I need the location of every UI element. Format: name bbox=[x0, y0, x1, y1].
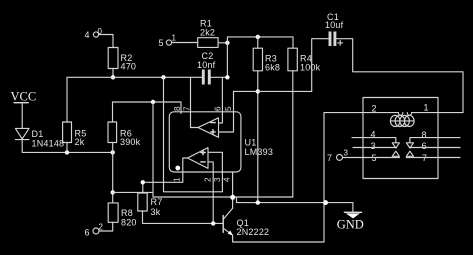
wire x153 riser to rail A bbox=[153, 102, 293, 197]
power VCC bbox=[11, 89, 37, 128]
capacitor C2 bbox=[197, 51, 216, 85]
svg-text:1N4148: 1N4148 bbox=[32, 139, 65, 149]
pin numbers bottom bbox=[173, 177, 232, 182]
diode D1 bbox=[15, 128, 64, 148]
op-amp A triangle (top) bbox=[198, 118, 219, 138]
junction R3 top bbox=[256, 35, 260, 39]
wire D1 to R5/R6 bottom bbox=[22, 140, 113, 153]
svg-text:6: 6 bbox=[214, 106, 223, 111]
resistor R7 bbox=[138, 193, 163, 217]
junction R2/bus bbox=[111, 75, 115, 79]
wire R1 right to junction bbox=[218, 42, 227, 44]
svg-text:3: 3 bbox=[371, 141, 376, 151]
svg-text:LM393: LM393 bbox=[245, 147, 274, 157]
svg-text:2k2: 2k2 bbox=[200, 28, 215, 38]
wire pad5 to R1 bbox=[172, 42, 198, 44]
node pad 5 bbox=[159, 34, 177, 49]
svg-text:3k: 3k bbox=[151, 207, 161, 217]
svg-text:4: 4 bbox=[85, 30, 90, 40]
svg-text:R7: R7 bbox=[151, 197, 163, 207]
svg-text:6k8: 6k8 bbox=[265, 63, 280, 73]
junction rail B / R3 riser bbox=[256, 200, 260, 204]
resistor R1 bbox=[198, 19, 218, 48]
junction pin4/rail A bbox=[230, 195, 235, 200]
svg-text:5: 5 bbox=[159, 38, 164, 48]
junction R7 top bbox=[141, 180, 145, 184]
junction R3 bottom bbox=[256, 89, 260, 93]
wire C1 right lead to relay coil pin 1 bbox=[336, 39, 463, 113]
wire pin 3 inside: non-inverting input B bbox=[208, 152, 222, 172]
wire R6 bottom down to R8 bbox=[112, 143, 114, 203]
relay coil bbox=[390, 113, 414, 127]
svg-text:3: 3 bbox=[344, 149, 349, 158]
svg-text:2: 2 bbox=[372, 104, 377, 114]
junction R5 bottom bbox=[65, 150, 69, 154]
wire R3 top bbox=[257, 37, 259, 48]
wire pin5 net: junction left to pin5, right to C1 left lead bbox=[234, 90, 312, 92]
svg-text:D1: D1 bbox=[32, 129, 44, 139]
resistor R5 bbox=[63, 122, 87, 147]
svg-text:U1: U1 bbox=[245, 138, 257, 148]
svg-text:2k: 2k bbox=[75, 137, 85, 147]
wire pad6 to R8 bottom bbox=[99, 222, 113, 231]
resistor R3 bbox=[253, 48, 280, 72]
svg-text:10nf: 10nf bbox=[197, 60, 216, 70]
junction bus/C2 right bbox=[225, 75, 229, 79]
svg-text:1: 1 bbox=[424, 103, 429, 113]
svg-text:820: 820 bbox=[121, 218, 137, 228]
wire R6 top to pin 8 bbox=[113, 102, 182, 122]
svg-text:8: 8 bbox=[173, 106, 182, 111]
wire R5 bottom bbox=[66, 143, 68, 153]
svg-text:4: 4 bbox=[223, 177, 232, 182]
svg-text:2: 2 bbox=[204, 177, 213, 182]
junction R1 right bbox=[225, 41, 229, 45]
resistor R2 bbox=[108, 48, 136, 72]
wire R7 bottom to Q1 base bbox=[143, 211, 223, 223]
wire relay pin2 to GND node bbox=[324, 113, 398, 203]
wire bus x163 down to pin 3 bbox=[164, 77, 223, 192]
wire pin 2: inverting input B down to base node bbox=[208, 162, 213, 224]
wire R8 top junction to x153 riser bbox=[113, 191, 153, 193]
svg-text:GND: GND bbox=[337, 218, 364, 232]
svg-text:3: 3 bbox=[213, 177, 222, 182]
svg-text:1: 1 bbox=[173, 177, 182, 182]
relay contact left: pins 4,3,5 bbox=[343, 130, 400, 164]
svg-text:8: 8 bbox=[422, 130, 427, 140]
node pad 4 bbox=[85, 27, 103, 40]
junction base node bbox=[211, 221, 215, 225]
wire bus down to R5 bbox=[66, 77, 68, 122]
resistor R8 bbox=[108, 203, 136, 228]
pin 7 wire: bus to op-amp A output bbox=[191, 77, 199, 127]
wire R1 junction down to bus bbox=[226, 43, 228, 78]
wire pin 1: op-amp B output to R7 top bbox=[143, 158, 188, 193]
svg-text:1: 1 bbox=[172, 34, 177, 43]
svg-text:5: 5 bbox=[224, 106, 233, 111]
rail B: collector node to GND node bbox=[237, 197, 353, 202]
relay K1 box bbox=[363, 98, 438, 179]
wire R2 bottom bbox=[112, 69, 114, 78]
wire main bus y=77 bbox=[67, 76, 227, 78]
wire pin 4 stub down bbox=[232, 172, 234, 208]
svg-text:7: 7 bbox=[183, 106, 192, 111]
relay contact right: pins 8,6,7 bbox=[406, 130, 460, 163]
svg-text:VCC: VCC bbox=[11, 89, 37, 103]
capacitor C1 bbox=[325, 12, 344, 46]
wire R4 bottom long vertical to rail A bbox=[292, 71, 294, 197]
junction bus x163 bbox=[161, 75, 165, 79]
svg-text:10uf: 10uf bbox=[325, 20, 344, 30]
node pad 3 bbox=[327, 149, 349, 164]
svg-text:470: 470 bbox=[121, 62, 137, 72]
op-amp U1 box bbox=[169, 112, 273, 172]
node pad 6 bbox=[85, 223, 104, 238]
pin numbers top bbox=[173, 106, 233, 111]
pin 1 marker dot bbox=[175, 166, 180, 171]
junction rail B / relay + emitter bbox=[323, 200, 328, 205]
pin 6 wire: bus to op-amp A inverting input bbox=[219, 77, 223, 123]
svg-text:R8: R8 bbox=[121, 208, 133, 218]
junction R8 top bbox=[111, 190, 115, 194]
svg-text:6: 6 bbox=[422, 141, 427, 151]
wire junction up and right to R3/R4 tops bbox=[227, 37, 293, 48]
wire pad4 to R2 bbox=[99, 35, 113, 48]
wire R3 bottom down rail B riser bbox=[257, 71, 259, 203]
svg-text:390k: 390k bbox=[120, 137, 141, 147]
resistor R6 bbox=[108, 122, 141, 147]
svg-text:6: 6 bbox=[85, 228, 90, 238]
junction x153 on pin8 wire bbox=[151, 100, 155, 104]
wire C1 left lead down to pin5 net bbox=[312, 39, 329, 92]
op-amp B triangle (bottom) bbox=[188, 148, 209, 169]
svg-text:2N2222: 2N2222 bbox=[237, 227, 270, 237]
svg-text:2: 2 bbox=[99, 223, 104, 232]
resistor R4 bbox=[288, 48, 321, 72]
pin 5 wire: R3 bottom to op-amp A non-inverting input bbox=[219, 91, 234, 132]
svg-text:100k: 100k bbox=[300, 63, 321, 73]
ground GND bbox=[337, 203, 364, 232]
junction R6 bottom bbox=[111, 150, 115, 154]
svg-text:7: 7 bbox=[327, 153, 332, 163]
transistor Q1 bbox=[223, 203, 324, 242]
